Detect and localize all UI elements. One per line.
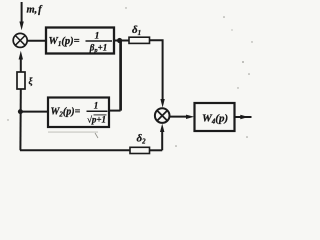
wire junction2 bottom shaft <box>161 130 163 151</box>
scan noise speckles (decorative) <box>48 131 98 133</box>
svg-text:ξ: ξ <box>29 76 33 86</box>
summing junction 1 <box>13 33 27 47</box>
wire junction2 to W4 input <box>170 116 190 118</box>
wire bottom long <box>20 149 130 151</box>
wire xi to junction1 arrow shaft <box>20 59 22 73</box>
radical vinculum <box>94 114 107 116</box>
svg-text:1: 1 <box>94 101 99 111</box>
arrowhead up into junction2 from delta2 <box>160 124 164 132</box>
wire bottom delta2 to corner <box>150 149 163 151</box>
comparator element delta2 box <box>130 147 150 153</box>
wire node to W2 input <box>20 111 48 113</box>
wire junction1 to W1 <box>27 40 46 42</box>
arrowhead right into W4 <box>186 115 194 119</box>
fraction bar <box>86 40 113 42</box>
block W1 <box>46 28 114 54</box>
summing junction 2 <box>155 108 170 123</box>
wire left vertical <box>19 89 21 150</box>
arrowhead down into junction1 (m,f input) <box>19 22 23 31</box>
svg-text:W1(p)=: W1(p)= <box>49 36 80 48</box>
block W4 <box>195 103 235 131</box>
svg-text:√p+1: √p+1 <box>87 115 106 125</box>
svg-text:βp+1: βp+1 <box>89 43 108 55</box>
wire delta1 to corner and down to junction2 <box>150 40 163 101</box>
comparator element delta1 box <box>129 37 150 43</box>
arrowhead down into junction2 <box>160 99 164 108</box>
wire W2 output up to top node <box>119 41 122 111</box>
wire W4 output <box>235 116 252 118</box>
fraction bar <box>87 110 108 112</box>
svg-text:1: 1 <box>95 32 100 42</box>
svg-text:W4(p): W4(p) <box>202 113 228 126</box>
arrowhead on output wire <box>240 115 248 119</box>
wire W1 to delta1 <box>114 40 129 42</box>
element xi box <box>17 72 25 89</box>
svg-text:W2(p)=: W2(p)= <box>51 107 81 119</box>
junction dot after W1 <box>117 38 122 43</box>
wire W2 output <box>109 110 121 112</box>
junction dot on left line <box>18 109 23 114</box>
svg-text:m, f: m, f <box>27 5 44 16</box>
arrowhead up into junction1 from xi <box>19 51 23 60</box>
wire input m,f vertical <box>21 2 23 23</box>
block W2 <box>48 98 109 128</box>
